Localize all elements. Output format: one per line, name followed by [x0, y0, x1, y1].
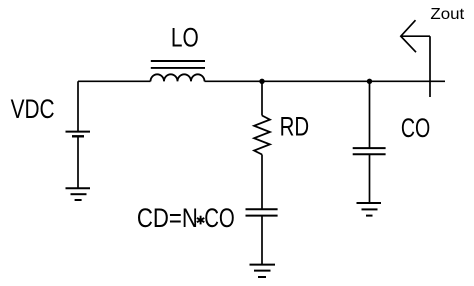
asterisk operator in CD=N*CO: [197, 216, 204, 225]
svg-text:RD: RD: [280, 112, 310, 142]
wire: VDC source to ground: [77, 136, 79, 188]
wire: capacitor CO to ground: [369, 154, 371, 203]
Zout arrowhead: [401, 20, 416, 52]
wire: capacitor CD to ground: [261, 216, 263, 265]
svg-text:CO: CO: [204, 203, 235, 233]
wire: resistor to capacitor CD: [261, 155, 263, 210]
svg-text:Zout: Zout: [430, 6, 464, 23]
inductor LO (coil with core bars): [151, 61, 206, 81]
wire: rail left segment (VDC corner to inductor): [78, 80, 151, 82]
ground (CO): [357, 203, 382, 216]
Zout probe (vertical stem crossing rail): [429, 36, 431, 97]
svg-text:LO: LO: [171, 23, 199, 53]
wire: left vertical from rail to VDC source: [77, 81, 79, 131]
svg-text:VDC: VDC: [11, 94, 55, 124]
node junction dot (right branch): [367, 79, 372, 84]
wire: dot to resistor RD: [261, 81, 263, 115]
svg-text:CO: CO: [401, 113, 430, 143]
node junction dot (middle branch): [259, 79, 264, 84]
Zout probe horizontal arm: [401, 35, 430, 37]
ground (CD): [250, 265, 276, 277]
svg-text:CD=N: CD=N: [137, 203, 198, 233]
battery source VDC (plates): [66, 132, 91, 137]
wire: rail right segment (inductor to right end): [205, 80, 446, 82]
wire: dot to capacitor CO: [369, 81, 371, 148]
ground (VDC): [66, 188, 91, 200]
capacitor CO (plates): [353, 148, 386, 154]
resistor RD (zigzag): [254, 116, 270, 155]
capacitor CD (plates): [246, 209, 278, 215]
label CD=N*CO: [137, 203, 235, 233]
